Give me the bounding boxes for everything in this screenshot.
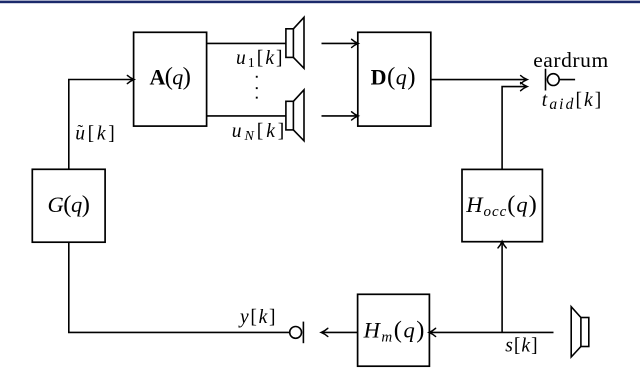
svg-text:uN[k]: uN[k] [232, 121, 284, 144]
top rule bar [0, 1, 640, 4]
wire speaker 2 to D with arrow [322, 115, 357, 117]
block Hocc(q) [462, 169, 542, 241]
wire G to microphone [69, 242, 290, 332]
svg-text:A(q): A(q) [149, 64, 191, 91]
source speaker [571, 307, 589, 357]
speaker 1 [286, 17, 304, 68]
block Hm(q) [358, 294, 430, 366]
svg-text:taid[k]: taid[k] [542, 90, 602, 113]
wire A to speaker 2 [207, 115, 286, 117]
svg-text:y[k]: y[k] [238, 307, 276, 328]
wire G to A with arrow [69, 80, 132, 170]
wire junction to Hocc with arrow [501, 243, 503, 332]
svg-text:G(q): G(q) [47, 191, 90, 218]
wire speaker 1 to D with arrow [322, 42, 357, 44]
wire Hocc to eardrum with arrow [502, 87, 525, 170]
svg-text:Hocc(q): Hocc(q) [465, 191, 537, 220]
wire A to speaker 1 [207, 42, 286, 44]
block A(q) [134, 32, 207, 126]
svg-text:s[k]: s[k] [505, 336, 537, 357]
speaker 2 [286, 90, 304, 141]
svg-text:˜: ˜ [78, 121, 84, 140]
svg-text:Hm(q): Hm(q) [363, 317, 425, 346]
svg-text:D(q): D(q) [371, 64, 416, 91]
wire Hm to microphone with arrow [323, 331, 358, 333]
vertical dots [256, 76, 258, 99]
wire D to eardrum with arrow [431, 79, 526, 81]
wire source speaker to Hm with arrow [431, 331, 554, 333]
svg-text:u1[k]: u1[k] [236, 48, 283, 71]
block D(q) [358, 32, 431, 126]
microphone symbol [290, 322, 304, 344]
block G(q) [32, 169, 105, 242]
svg-text:eardrum: eardrum [533, 48, 608, 72]
eardrum symbol [546, 69, 576, 91]
